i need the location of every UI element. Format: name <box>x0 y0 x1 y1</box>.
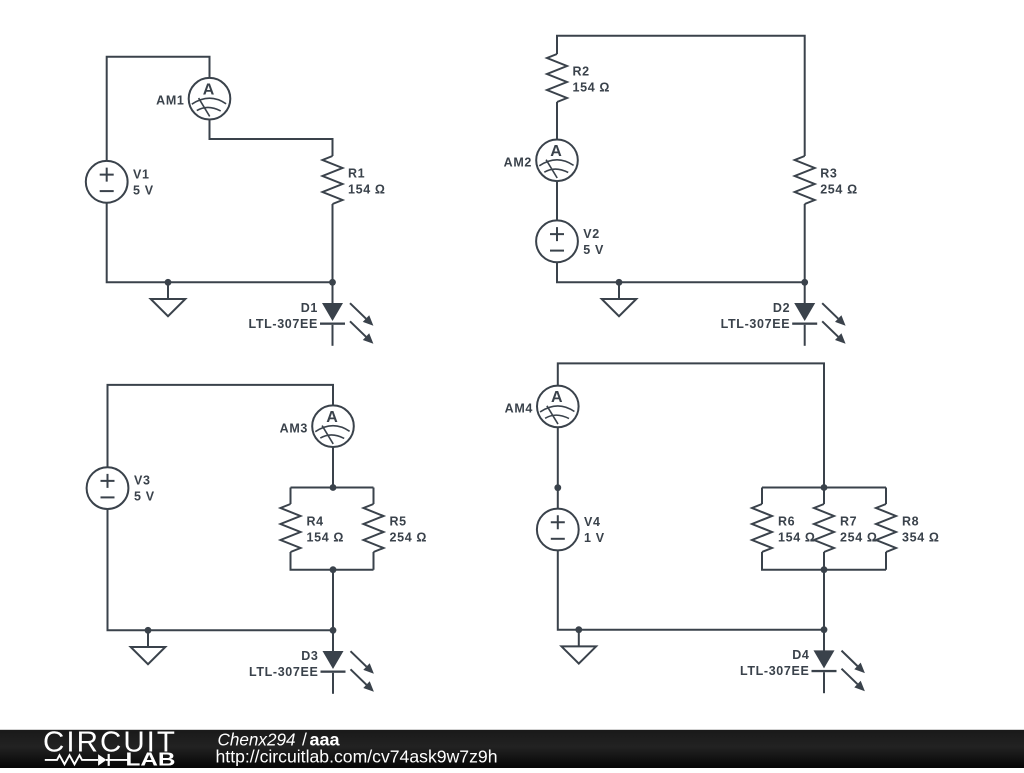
svg-text:A: A <box>551 389 563 406</box>
svg-text:R4: R4 <box>307 515 324 529</box>
svg-text:http://circuitlab.com/cv74ask9: http://circuitlab.com/cv74ask9w7z9h <box>216 746 498 766</box>
svg-text:R2: R2 <box>573 65 590 79</box>
svg-text:D1: D1 <box>301 301 318 315</box>
svg-text:V1: V1 <box>133 167 150 181</box>
svg-text:LTL-307EE: LTL-307EE <box>721 317 791 331</box>
svg-text:R6: R6 <box>778 515 795 529</box>
svg-text:1 V: 1 V <box>584 531 605 545</box>
svg-text:D3: D3 <box>301 649 318 663</box>
svg-text:D4: D4 <box>792 648 809 662</box>
svg-text:154 Ω: 154 Ω <box>778 531 816 545</box>
svg-text:AM4: AM4 <box>505 401 533 415</box>
svg-text:AM3: AM3 <box>280 421 308 435</box>
svg-text:D2: D2 <box>773 301 790 315</box>
svg-text:254 Ω: 254 Ω <box>390 531 428 545</box>
svg-text:254 Ω: 254 Ω <box>840 531 878 545</box>
svg-text:154 Ω: 154 Ω <box>348 183 386 197</box>
svg-text:LTL-307EE: LTL-307EE <box>740 664 810 678</box>
svg-text:A: A <box>550 143 562 160</box>
svg-text:LTL-307EE: LTL-307EE <box>248 317 318 331</box>
svg-text:AM2: AM2 <box>504 155 532 169</box>
svg-text:154 Ω: 154 Ω <box>573 81 611 95</box>
svg-text:AM1: AM1 <box>156 94 184 108</box>
svg-text:254 Ω: 254 Ω <box>820 183 858 197</box>
svg-text:5 V: 5 V <box>583 243 604 257</box>
svg-text:V2: V2 <box>583 227 600 241</box>
svg-text:154 Ω: 154 Ω <box>307 531 345 545</box>
svg-text:V4: V4 <box>584 515 601 529</box>
svg-text:354 Ω: 354 Ω <box>902 531 940 545</box>
svg-text:LAB: LAB <box>126 750 176 769</box>
svg-text:R3: R3 <box>820 167 837 181</box>
svg-text:R5: R5 <box>390 515 407 529</box>
svg-text:LTL-307EE: LTL-307EE <box>249 665 319 679</box>
svg-text:5 V: 5 V <box>133 183 154 197</box>
svg-text:5 V: 5 V <box>134 490 155 504</box>
svg-text:R8: R8 <box>902 515 919 529</box>
svg-text:R1: R1 <box>348 167 365 181</box>
svg-text:V3: V3 <box>134 474 151 488</box>
svg-text:A: A <box>326 409 338 426</box>
svg-text:A: A <box>203 81 215 98</box>
svg-text:R7: R7 <box>840 515 857 529</box>
